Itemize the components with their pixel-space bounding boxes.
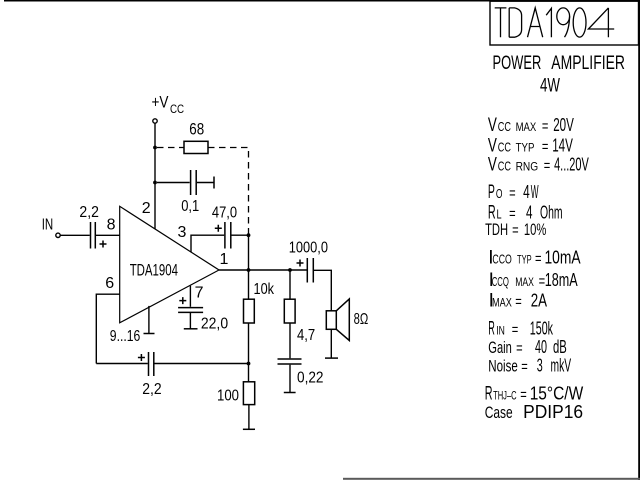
- svg-text:R: R: [488, 318, 495, 339]
- svg-text:4: 4: [523, 182, 530, 202]
- wire IN to C1: [60, 234, 89, 236]
- svg-text:CC: CC: [498, 159, 511, 174]
- svg-text:1000,0: 1000,0: [289, 239, 328, 256]
- spec Imax: [489, 291, 547, 312]
- wire 4,7 to 0,22: [289, 323, 291, 358]
- ground speaker: [325, 357, 338, 359]
- spec Vcc typ: [488, 136, 573, 157]
- ground 0,22: [284, 392, 296, 394]
- spec Po: [488, 182, 539, 203]
- svg-text:V: V: [488, 136, 497, 157]
- svg-text:15°C/W: 15°C/W: [530, 384, 584, 404]
- svg-text:=: =: [512, 321, 519, 338]
- ground 100: [243, 428, 255, 430]
- wire pin 9...16: [148, 306, 150, 334]
- spec Gain: [488, 337, 567, 357]
- svg-text:47,0: 47,0: [212, 205, 237, 222]
- svg-text:6: 6: [105, 275, 114, 292]
- plus sign 1000,0: [297, 260, 304, 267]
- svg-text:2,2: 2,2: [79, 204, 99, 221]
- svg-text:+V: +V: [152, 93, 170, 112]
- wire 4,7 top: [289, 270, 291, 299]
- svg-text:P: P: [488, 182, 495, 203]
- spec Vcc rng: [488, 155, 589, 176]
- svg-text:2,2: 2,2: [142, 381, 161, 398]
- svg-text:Gain: Gain: [488, 338, 512, 357]
- terminal +VCC: [153, 119, 157, 123]
- svg-text:MAX: MAX: [516, 122, 537, 134]
- svg-text:Case: Case: [485, 403, 513, 422]
- spec Noise: [488, 355, 571, 375]
- svg-text:dB: dB: [553, 337, 567, 357]
- svg-text:9...16: 9...16: [110, 328, 141, 345]
- capacitor 22,0: [178, 308, 203, 313]
- svg-text:8: 8: [107, 216, 116, 233]
- plus sign C1: [100, 241, 107, 248]
- wire 10k top: [248, 270, 250, 299]
- svg-text:V: V: [488, 115, 497, 136]
- ground 22,0: [184, 328, 198, 330]
- svg-text:4...20V: 4...20V: [554, 155, 589, 175]
- op-amp U1 TDA1904: [120, 206, 219, 322]
- plus sign 47,0: [215, 225, 222, 232]
- svg-text:POWER: POWER: [493, 53, 542, 74]
- spec Rthj-c: [485, 384, 584, 405]
- plus sign 22,0: [179, 297, 186, 304]
- wire VCC vertical: [154, 124, 156, 230]
- svg-text:O: O: [496, 186, 503, 201]
- wire pin 3: [191, 235, 224, 252]
- border top: [4, 0, 640, 2]
- capacitor 1000,0: [307, 258, 313, 283]
- wire 100 top: [248, 364, 250, 382]
- svg-text:8Ω: 8Ω: [354, 311, 369, 328]
- node junction A 47,0/68: [247, 233, 251, 237]
- svg-text:CC: CC: [170, 102, 184, 116]
- wire node A to output: [248, 235, 250, 270]
- capacitor C1 2,2: [91, 222, 96, 249]
- capacitor C2 2,2 bottom: [149, 352, 154, 376]
- svg-text:10%: 10%: [524, 220, 547, 239]
- svg-text:68: 68: [189, 121, 204, 139]
- svg-text:1: 1: [220, 251, 229, 268]
- resistor 10k: [244, 299, 255, 323]
- resistor 68: [184, 141, 208, 153]
- node junction feedback/100: [247, 362, 251, 366]
- svg-text:2: 2: [142, 200, 151, 217]
- spec Icco max: [489, 270, 578, 291]
- svg-text:MAX: MAX: [492, 298, 512, 310]
- svg-text:22,0: 22,0: [201, 316, 228, 333]
- svg-text:MAX: MAX: [515, 277, 534, 289]
- svg-text:3: 3: [178, 224, 187, 241]
- svg-text:2A: 2A: [531, 291, 547, 311]
- wire output pin 1: [219, 269, 307, 271]
- svg-text:=: =: [521, 358, 528, 375]
- svg-text:7: 7: [195, 285, 204, 302]
- svg-text:=: =: [544, 158, 551, 175]
- svg-text:=: =: [516, 340, 523, 357]
- title box: [490, 1, 639, 45]
- svg-text:4W: 4W: [540, 75, 560, 96]
- svg-text:mkV: mkV: [551, 355, 572, 375]
- node junction VCC/68: [153, 146, 157, 150]
- border bottom: [343, 478, 640, 480]
- title text TDA1904: [495, 8, 615, 37]
- svg-text:0,22: 0,22: [297, 370, 324, 387]
- wire bottom feedback: [96, 363, 148, 365]
- wire pin 7: [189, 286, 191, 307]
- node junction out/4,7: [288, 268, 292, 272]
- svg-text:R: R: [485, 384, 493, 405]
- svg-text:20V: 20V: [553, 115, 574, 135]
- svg-text:10mA: 10mA: [545, 247, 581, 267]
- svg-text:100: 100: [217, 387, 239, 404]
- svg-text:AMPLIFIER: AMPLIFIER: [551, 53, 625, 74]
- wire 100 bottom: [248, 405, 250, 430]
- svg-text:RNG: RNG: [516, 162, 539, 174]
- svg-text:18mA: 18mA: [545, 270, 578, 290]
- terminal IN: [56, 233, 60, 237]
- wire 1000,0 to speaker: [314, 270, 331, 311]
- svg-text:=: =: [509, 206, 515, 223]
- svg-text:4,7: 4,7: [297, 327, 315, 344]
- spec TDH: [485, 220, 546, 239]
- svg-text:=: =: [512, 222, 519, 239]
- svg-text:TYP: TYP: [516, 143, 535, 155]
- svg-text:Noise: Noise: [488, 356, 518, 375]
- border right: [638, 0, 640, 480]
- svg-text:W: W: [531, 182, 539, 202]
- svg-text:THJ–C: THJ–C: [493, 391, 516, 403]
- svg-text:CCO: CCO: [492, 251, 511, 266]
- capacitor 0,22: [278, 359, 302, 364]
- spec Case PDIP16: [485, 402, 583, 422]
- spec Vcc max: [488, 115, 574, 136]
- ground pin 9...16: [144, 333, 155, 335]
- spec RL: [488, 203, 563, 224]
- resistor 4,7: [284, 299, 295, 323]
- spec Icco typ: [488, 247, 580, 268]
- node junction out/10k: [247, 268, 251, 272]
- wire dashed from 68 to node A: [208, 148, 249, 235]
- svg-text:=: =: [515, 294, 522, 311]
- svg-text:CCQ: CCQ: [492, 274, 509, 289]
- svg-text:=: =: [535, 250, 542, 267]
- svg-text:TYP: TYP: [517, 254, 532, 266]
- svg-text:40: 40: [535, 337, 547, 357]
- svg-text:PDIP16: PDIP16: [523, 402, 583, 422]
- svg-text:=: =: [542, 139, 549, 156]
- capacitor 47,0: [225, 222, 231, 249]
- wire speaker to ground: [330, 329, 332, 358]
- spec Rin: [488, 318, 553, 339]
- svg-text:14V: 14V: [552, 136, 573, 156]
- resistor 100: [243, 382, 254, 405]
- svg-text:IN: IN: [496, 325, 505, 337]
- svg-text:TDH: TDH: [485, 220, 508, 239]
- svg-text:CC: CC: [498, 119, 511, 134]
- wire pin 6: [96, 294, 119, 363]
- svg-text:IN: IN: [42, 216, 54, 233]
- plus sign C2: [138, 354, 145, 361]
- svg-text:10k: 10k: [254, 281, 275, 298]
- svg-text:=: =: [509, 185, 515, 202]
- wire 10k bottom: [248, 323, 250, 364]
- svg-text:CC: CC: [498, 140, 511, 155]
- svg-text:V: V: [488, 155, 497, 176]
- node junction VCC/0,1: [153, 181, 157, 185]
- svg-text:0,1: 0,1: [181, 198, 199, 215]
- wire dashed to resistor 68: [157, 147, 184, 149]
- svg-text:3: 3: [537, 355, 543, 375]
- capacitor 0,1: [157, 182, 190, 184]
- svg-text:=: =: [542, 118, 549, 135]
- speaker LS1: [326, 311, 336, 330]
- svg-text:150k: 150k: [530, 318, 554, 338]
- svg-text:TDA1904: TDA1904: [130, 260, 178, 279]
